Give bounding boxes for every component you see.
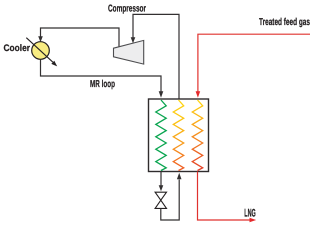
- wire exchanger MR vapor to compressor suction: [131, 14, 179, 99]
- middle coil: [173, 100, 183, 171]
- svg-text:LNG: LNG: [244, 208, 256, 220]
- svg-text:MR loop: MR loop: [90, 79, 115, 90]
- wire exchanger to valve: [159, 172, 164, 192]
- wire MR loop cooler to exchanger: [41, 59, 164, 98]
- right coil: [192, 100, 202, 171]
- LNG line: [198, 172, 257, 223]
- svg-text:Compressor: Compressor: [108, 4, 146, 15]
- cooler diagonal arrow: [26, 38, 57, 67]
- heat exchanger: [149, 99, 209, 172]
- compressor: [114, 40, 144, 64]
- treated feed gas line: [196, 34, 310, 98]
- green coil: [156, 100, 166, 171]
- wire compressor discharge to cooler: [38, 28, 119, 47]
- wire valve to exchanger return: [161, 173, 182, 220]
- cooler: [32, 42, 50, 60]
- svg-text:Treated feed gas: Treated feed gas: [259, 17, 310, 28]
- valve: [155, 192, 166, 208]
- svg-text:Cooler: Cooler: [4, 43, 31, 54]
